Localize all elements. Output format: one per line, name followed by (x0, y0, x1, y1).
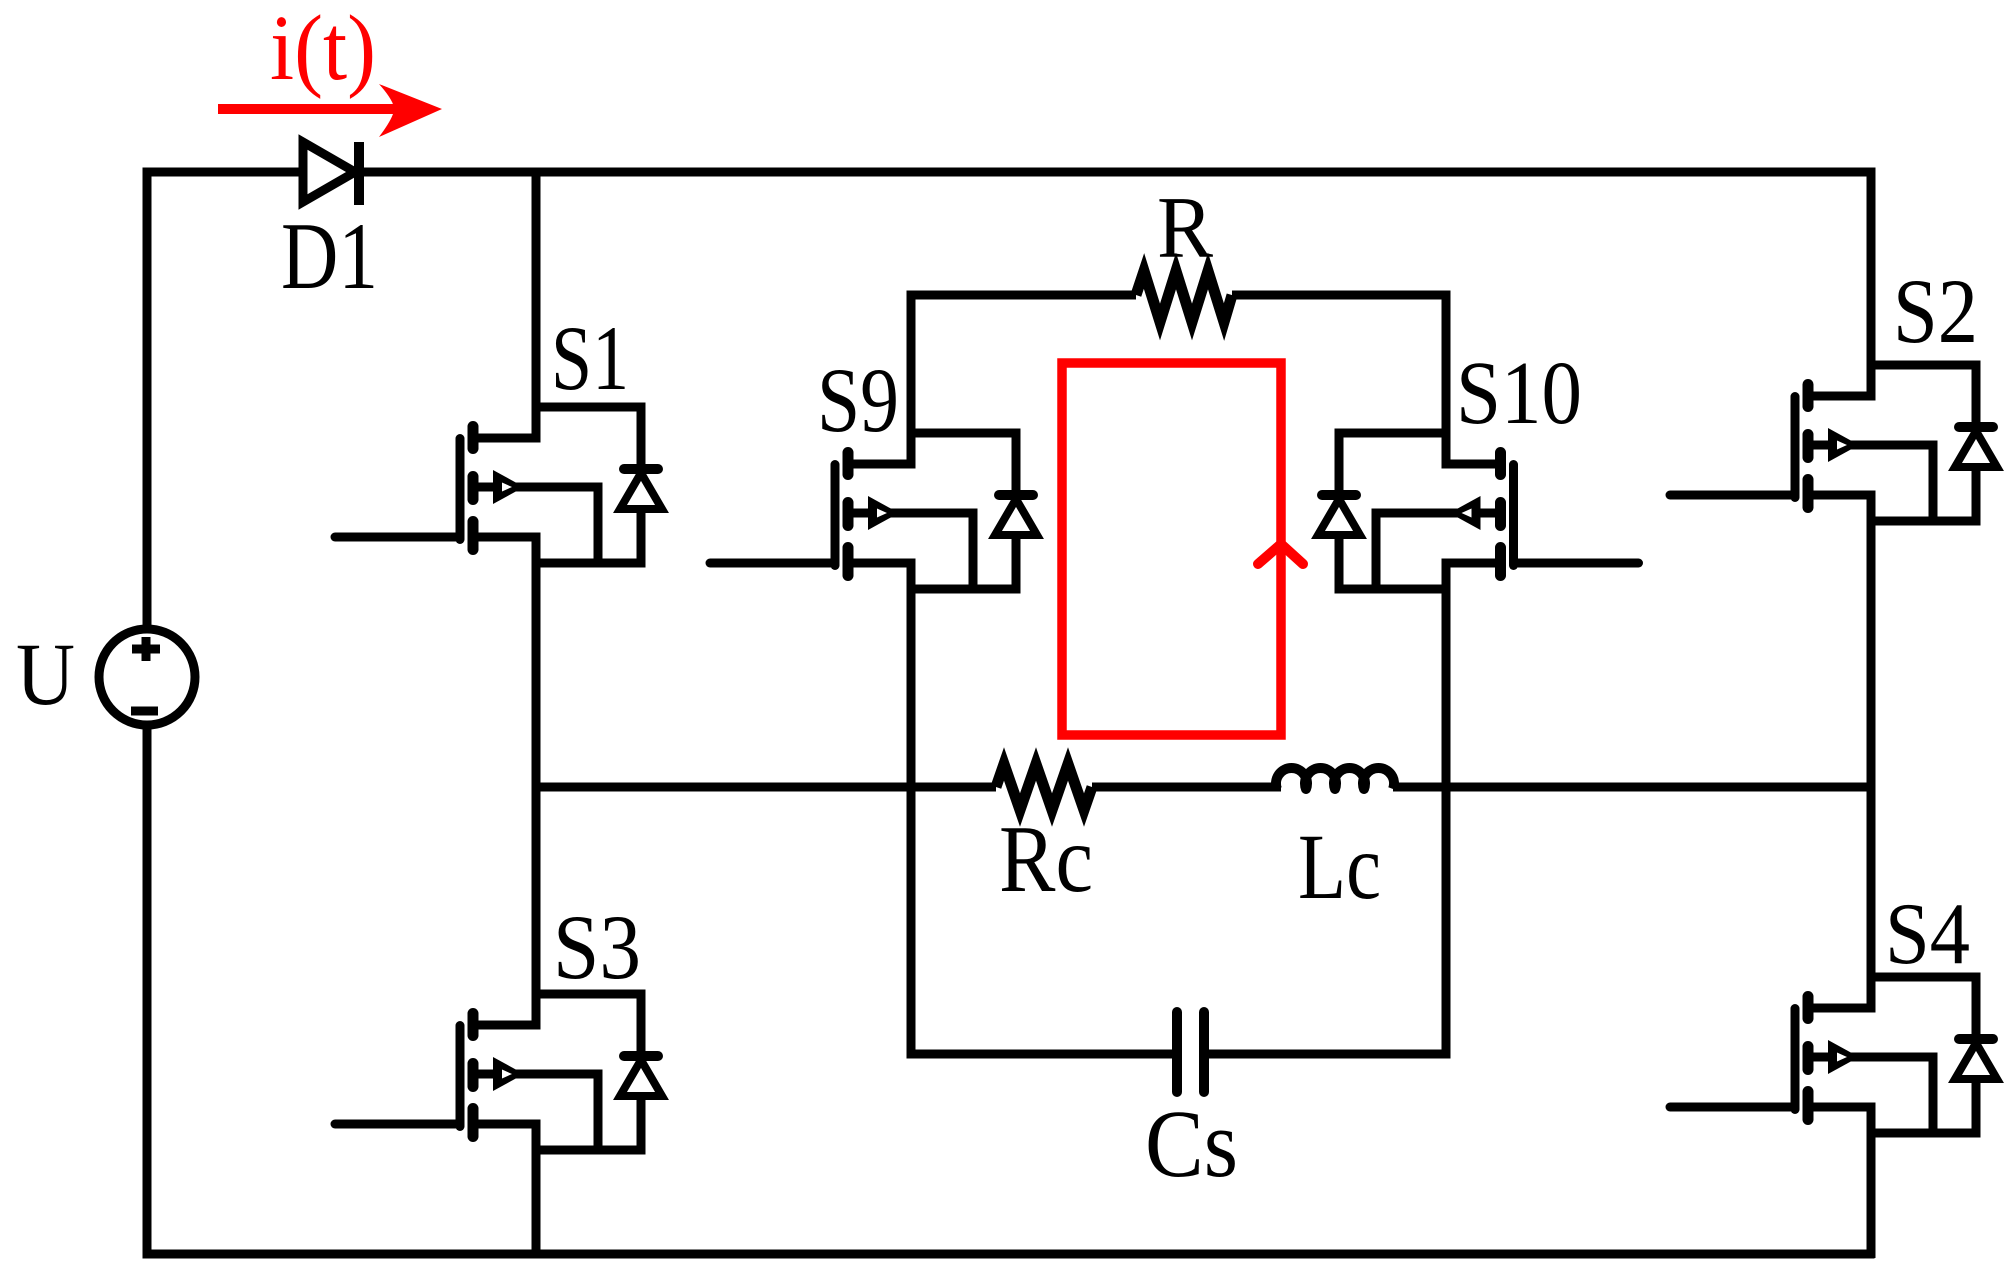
svg-text:Rc: Rc (999, 806, 1093, 912)
svg-text:S3: S3 (553, 896, 641, 998)
svg-text:U: U (16, 626, 75, 724)
svg-text:S1: S1 (551, 307, 629, 409)
svg-text:Cs: Cs (1145, 1090, 1238, 1197)
svg-text:R: R (1157, 180, 1213, 277)
svg-text:S9: S9 (817, 349, 899, 451)
svg-text:S4: S4 (1885, 886, 1970, 983)
svg-text:D1: D1 (281, 203, 378, 309)
svg-text:S2: S2 (1893, 260, 1978, 362)
svg-text:i(t): i(t) (270, 0, 376, 100)
svg-text:Lc: Lc (1298, 816, 1381, 919)
svg-text:S10: S10 (1456, 344, 1582, 443)
